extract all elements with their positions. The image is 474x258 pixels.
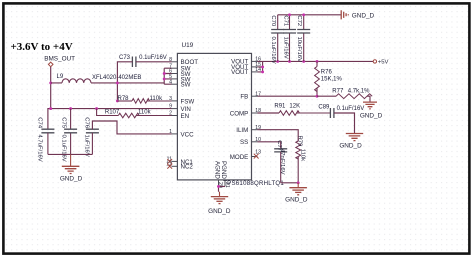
svg-text:2: 2 — [169, 111, 172, 117]
junction gnd rail / R79 — [297, 181, 300, 184]
svg-text:110k: 110k — [138, 110, 152, 116]
wire BMS_OUT rail — [50, 67, 52, 109]
ground GND_D at R77 — [360, 102, 383, 119]
junction top gnd / C71 — [288, 13, 291, 16]
capacitor C77 47nF/16V — [274, 140, 287, 183]
U19 pin 12 NC2 — [166, 161, 193, 170]
svg-text:3: 3 — [169, 96, 172, 102]
capacitor C70 0.1uF/16V — [270, 15, 284, 64]
U19 pin 5 SW — [169, 74, 191, 83]
wire C89 to gnd — [334, 113, 355, 133]
U19 pin 3 FSW — [169, 96, 194, 105]
svg-text:C75: C75 — [61, 117, 67, 129]
svg-text:21: 21 — [224, 182, 230, 188]
junction VIN rail / R107 — [95, 107, 98, 110]
text +3.6V to +4V — [11, 41, 73, 53]
wire L9 to SW bracket — [91, 82, 164, 84]
svg-text:10uF/16V: 10uF/16V — [296, 37, 302, 63]
junction top gnd / C72 — [302, 13, 305, 16]
U19 pin 15 VOUT — [231, 62, 261, 71]
wire gnd rail input caps — [48, 153, 93, 155]
junction VIN rail / C75 — [69, 107, 72, 110]
part number TPS61088QRHLTQ1 — [223, 180, 284, 187]
resistor R79 110k — [296, 136, 306, 183]
svg-text:8: 8 — [169, 57, 172, 63]
junction +5V rail x=289.5 — [288, 60, 291, 63]
U19 pin 9 VIN — [169, 104, 191, 113]
junction +5V rail x=317 — [316, 60, 319, 63]
junction VOUT bracket pin 14 — [261, 70, 264, 73]
svg-text:AGND: AGND — [213, 161, 220, 179]
wire AGND/PGND join — [219, 186, 226, 191]
U19 pin 4 SW — [169, 79, 191, 88]
svg-text:TPS61088QRHLTQ1: TPS61088QRHLTQ1 — [223, 180, 284, 187]
svg-text:COMP: COMP — [230, 110, 249, 117]
svg-text:GND_D: GND_D — [208, 208, 231, 215]
svg-text:4.7k,1%: 4.7k,1% — [348, 89, 370, 95]
U19 pin 10 SS — [240, 137, 261, 146]
U19 pin 17 FB — [240, 91, 261, 100]
svg-text:EN: EN — [181, 113, 190, 120]
wire VCC from C76 — [92, 121, 171, 134]
svg-text:GND_D: GND_D — [285, 197, 308, 204]
svg-text:4.7uF/16V: 4.7uF/16V — [36, 135, 42, 162]
svg-text:9: 9 — [169, 104, 172, 110]
svg-text:0.1uF/16V: 0.1uF/16V — [139, 55, 167, 61]
svg-text:4: 4 — [169, 79, 172, 85]
svg-text:110k: 110k — [300, 149, 306, 161]
junction +5V rail x=277.7 — [276, 60, 279, 63]
svg-text:0.1uF/16V: 0.1uF/16V — [61, 135, 67, 162]
wire SS — [258, 142, 281, 149]
ground GND_D at C89 — [339, 134, 363, 150]
svg-text:ILIM: ILIM — [236, 127, 248, 134]
svg-text:+3.6V to +4V: +3.6V to +4V — [11, 41, 73, 53]
wire VOUT bracket — [258, 61, 263, 72]
U19 pin 19 ILIM — [236, 125, 261, 134]
svg-text:BMS_OUT: BMS_OUT — [44, 55, 75, 62]
svg-text:0.1uF/16V: 0.1uF/16V — [270, 37, 276, 64]
capacitor C89 0.1uF/16V — [318, 105, 364, 118]
svg-text:R91: R91 — [274, 103, 286, 109]
svg-text:VCC: VCC — [181, 131, 195, 138]
svg-text:0.1uF/16V: 0.1uF/16V — [337, 106, 365, 112]
svg-text:47nF/16V: 47nF/16V — [279, 149, 285, 175]
svg-text:FSW: FSW — [181, 98, 195, 105]
svg-text:13: 13 — [255, 150, 261, 156]
svg-text:SS: SS — [240, 139, 248, 146]
capacitor C73 0.1uF/16V — [119, 55, 167, 67]
U19 pin 13 MODE — [230, 150, 261, 161]
U19 pin 1 VCC — [169, 129, 194, 138]
U19 pin 20 AGND — [213, 161, 223, 188]
U19 pin 18 COMP — [230, 108, 261, 117]
U19 pin 16 VOUT — [231, 57, 261, 66]
svg-text:R76: R76 — [321, 70, 333, 76]
svg-text:R107: R107 — [105, 110, 120, 116]
junction SW bracket pin 5 — [163, 77, 166, 80]
resistor R77 4.7k,1% — [317, 89, 372, 102]
wire C73 to BOOT pin 8 — [136, 61, 172, 63]
op-amp U19 TPS61088 body — [177, 42, 251, 180]
junction VIN rail / BMS rail — [49, 107, 52, 110]
wire +5V rail — [263, 60, 374, 62]
wire COMP — [258, 112, 280, 114]
wire VIN rail — [48, 109, 172, 130]
U19 pin 8 BOOT — [169, 57, 198, 66]
svg-text:GND_D: GND_D — [60, 176, 83, 183]
svg-text:U19: U19 — [182, 42, 194, 49]
capacitor C74 4.7uF/16V — [36, 117, 54, 161]
svg-text:SW: SW — [181, 82, 191, 89]
inductor L9 XFL4020-402MEB — [51, 74, 142, 83]
svg-text:R79: R79 — [297, 136, 303, 147]
svg-text:GND_D: GND_D — [352, 13, 375, 20]
svg-text:15K,1%: 15K,1% — [321, 77, 343, 83]
resistor R107 110k — [97, 109, 172, 118]
svg-text:1uF/16V: 1uF/16V — [282, 37, 288, 59]
U19 pin 6 SW — [169, 69, 191, 78]
ground GND_D U19 thermal pad — [208, 192, 231, 215]
ground GND_D top right sideways — [341, 10, 374, 19]
svg-text:C89: C89 — [318, 105, 330, 111]
svg-text:PGND: PGND — [220, 161, 227, 179]
wire C77/R79 gnd rail — [281, 182, 299, 184]
svg-text:1uF/16V: 1uF/16V — [83, 135, 89, 157]
capacitor C75 0.1uF/16V — [61, 109, 78, 162]
junction FB / R76 / R77 — [316, 95, 319, 98]
svg-text:VOUT: VOUT — [231, 69, 248, 76]
svg-text:C74: C74 — [36, 117, 42, 129]
svg-text:FB: FB — [240, 94, 248, 101]
svg-text:C76: C76 — [83, 117, 89, 129]
power flag BMS_OUT — [44, 55, 75, 66]
power flag +5V — [373, 60, 388, 66]
svg-text:12K: 12K — [289, 103, 300, 109]
U19 pin 7 SW — [169, 63, 191, 72]
wire SW bracket — [164, 68, 171, 84]
svg-text:R78: R78 — [118, 96, 130, 102]
wire top gnd — [278, 14, 341, 16]
resistor R91 12K — [274, 103, 330, 115]
resistor R76 15K,1% — [315, 61, 343, 96]
wire FB — [258, 95, 318, 97]
svg-text:C71: C71 — [282, 15, 288, 26]
U19 pin 14 VOUT — [231, 67, 261, 76]
svg-text:GND_D: GND_D — [339, 143, 362, 150]
svg-text:110k: 110k — [150, 96, 164, 102]
junction SW bracket pin 6 — [163, 72, 166, 75]
junction +5V rail x=303.7 — [302, 60, 305, 63]
svg-text:C73: C73 — [119, 55, 131, 61]
junction AGND/PGND — [217, 185, 220, 188]
ground GND_D at C77/R79 — [285, 183, 308, 204]
U19 pin 2 EN — [169, 111, 189, 120]
junction VOUT bracket pin 15 — [261, 65, 264, 68]
svg-text:C70: C70 — [270, 15, 276, 27]
svg-text:C72: C72 — [296, 15, 302, 26]
U19 pin 21 PGND — [220, 161, 230, 188]
capacitor C72 10uF/16V — [296, 15, 310, 62]
svg-text:R77: R77 — [332, 89, 344, 95]
svg-text:XFL4020-402MEB: XFL4020-402MEB — [92, 75, 141, 81]
svg-text:MODE: MODE — [230, 154, 249, 161]
resistor R78 110k — [117, 96, 171, 103]
junction C73 drop / R78 lead — [116, 99, 119, 102]
svg-text:GND_D: GND_D — [360, 112, 383, 119]
svg-text:L9: L9 — [57, 74, 64, 80]
junction C73 drop / L9 wire — [116, 81, 119, 84]
svg-text:1: 1 — [169, 129, 172, 135]
svg-text:NC2: NC2 — [181, 164, 194, 171]
capacitor C71 1uF/16V — [282, 15, 296, 62]
wire ILIM — [258, 130, 299, 141]
ground GND_D input caps — [60, 154, 83, 182]
wire C73 to SW node — [117, 62, 132, 101]
capacitor C76 1uF/16V — [83, 117, 99, 157]
junction BMS rail / L9 — [49, 81, 52, 84]
U19 pin 11 NC1 — [167, 157, 194, 166]
svg-text:+5V: +5V — [378, 60, 389, 66]
